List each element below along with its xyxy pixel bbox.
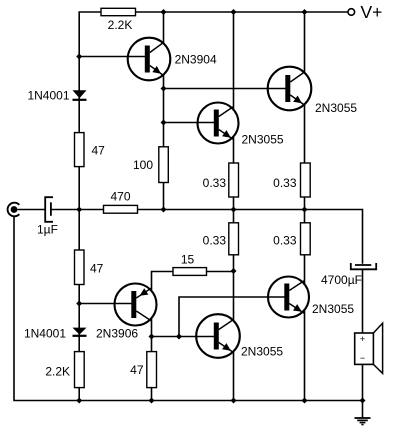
transistor Q4 2N3906 (PNP) — [115, 284, 157, 326]
wire 4700uF to speaker — [362, 270, 364, 334]
svg-text:2N3055: 2N3055 — [315, 101, 357, 115]
svg-text:47: 47 — [130, 363, 144, 377]
node top rail / 2N3904 collector — [161, 9, 167, 15]
wire 2N3906 collector down to bottom rail — [151, 318, 153, 401]
svg-text:15: 15 — [181, 253, 195, 267]
node top rail / driver collector — [231, 9, 237, 15]
svg-text:0.33: 0.33 — [203, 234, 227, 248]
resistor 100 — [133, 147, 168, 183]
diode D2 1N4001 (bottom) — [24, 327, 87, 341]
node driver base — [161, 120, 167, 126]
wire 2N3906 collector to base of lower 2N3055 — [152, 336, 198, 338]
node bottom rail / ground — [360, 398, 366, 404]
speaker LS1 — [355, 323, 383, 373]
resistor 47 (lower left) — [75, 250, 104, 285]
resistor 47 (bottom middle) — [130, 352, 156, 388]
wire base of upper-right 2N3055 — [164, 88, 271, 90]
diode D1 1N4001 (top) — [27, 88, 86, 102]
resistor 15 — [173, 253, 207, 276]
resistor 47 (upper left) — [75, 133, 106, 167]
node 2N3906 base / bias chain — [76, 301, 82, 307]
wire left bias chain vertical — [78, 12, 80, 401]
wire top V+ rail — [78, 11, 348, 13]
svg-text:1N4001: 1N4001 — [27, 88, 69, 102]
transistor Q3 2N3055 upper right — [268, 67, 312, 111]
resistor 2.2K (bottom) — [45, 352, 84, 388]
node 2N3904 base / bias chain — [76, 54, 82, 60]
wire to base of lower-right 2N3055 — [179, 297, 270, 337]
transistor Q6 2N3055 lower right — [268, 277, 309, 318]
transistor Q5 2N3055 lower middle — [196, 314, 240, 358]
resistor 0.33 (lower left) — [203, 223, 239, 255]
node bottom rail x=151.5 — [149, 398, 155, 404]
svg-text:2N3906: 2N3906 — [96, 327, 138, 341]
svg-text:100: 100 — [133, 158, 153, 172]
node bottom rail x=304.5 — [302, 398, 308, 404]
svg-text:4700µF: 4700µF — [321, 273, 362, 287]
svg-text:2N3904: 2N3904 — [175, 53, 217, 67]
node input coupling — [76, 207, 82, 213]
wire right output leg vertical x=304.5 — [304, 12, 306, 401]
svg-text:0.33: 0.33 — [273, 234, 297, 248]
node lower 2N3055 bases — [176, 334, 182, 340]
svg-text:−: − — [360, 353, 365, 363]
resistor 470 — [104, 190, 138, 214]
capacitor C2 4700uF — [321, 263, 376, 287]
transistor Q2 2N3055 driver — [198, 103, 239, 144]
wire 2N3906 emitter to 15-ohm resistor — [152, 272, 174, 292]
node output rail x=233.5 — [231, 207, 237, 213]
node output rail x=304.5 — [302, 207, 308, 213]
wire 15-ohm resistor to node x=233.5 — [207, 271, 234, 273]
svg-text:47: 47 — [92, 144, 106, 158]
svg-text:2N3055: 2N3055 — [242, 133, 284, 147]
svg-text:0.33: 0.33 — [273, 176, 297, 190]
svg-text:2.2K: 2.2K — [108, 18, 133, 32]
wire base of driver 2N3055 — [164, 122, 201, 124]
node 2N3904 emitter / Q3 base — [161, 86, 167, 92]
resistor 0.33 (upper right emitter) — [273, 163, 310, 197]
wire speaker to bottom rail and ground — [362, 364, 364, 417]
wire mid rail to 4700uF — [51, 210, 363, 264]
svg-text:1N4001: 1N4001 — [24, 327, 66, 341]
resistor 0.33 (lower right) — [273, 223, 310, 255]
ground — [355, 418, 371, 425]
svg-text:2N3055: 2N3055 — [241, 344, 283, 358]
wire input ground run to bottom rail — [14, 216, 363, 400]
svg-text:V+: V+ — [361, 2, 383, 22]
wire input coupling to output node (mid rail) — [18, 209, 45, 211]
wire node-A vertical (2N3904 emitter chain) — [163, 12, 165, 210]
input connector J1 — [8, 203, 20, 217]
svg-text:2.2K: 2.2K — [45, 365, 70, 379]
svg-text:+: + — [360, 334, 365, 344]
svg-text:2N3055: 2N3055 — [312, 302, 354, 316]
node top rail / Q3 collector — [302, 9, 308, 15]
wire upper output leg vertical x=233.5 — [233, 12, 235, 401]
resistor 0.33 (upper left emitter) — [203, 163, 239, 197]
node 2N3906 collector — [149, 334, 155, 340]
node 15-ohm / lower leg — [231, 268, 237, 274]
node A mid rail x=163.5 — [161, 207, 167, 213]
capacitor C1 1uF — [37, 197, 58, 236]
transistor Q1 2N3904 — [128, 38, 171, 81]
svg-text:47: 47 — [90, 262, 104, 276]
wire 2N3906 base — [79, 303, 116, 305]
node bottom rail x=233.5 — [231, 398, 237, 404]
svg-text:0.33: 0.33 — [203, 176, 227, 190]
wire 2N3904 base — [79, 56, 130, 58]
V+ supply terminal — [348, 2, 382, 22]
resistor 2.2K (top) — [101, 8, 136, 32]
svg-text:470: 470 — [110, 190, 130, 204]
svg-text:1µF: 1µF — [37, 223, 58, 237]
node bottom rail x=78.5 — [76, 398, 82, 404]
